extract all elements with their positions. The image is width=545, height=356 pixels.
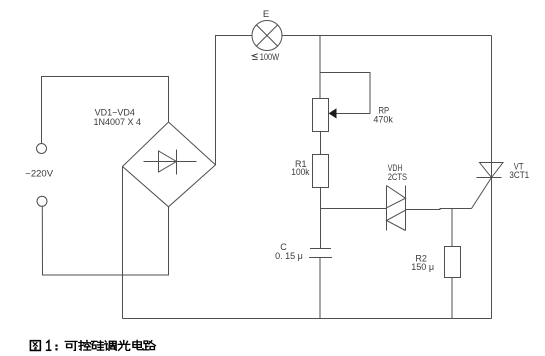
svg-text:150 μ: 150 μ xyxy=(411,262,434,272)
svg-text:E: E xyxy=(263,9,269,20)
wire RP to R1 xyxy=(320,132,322,155)
svg-text:~220V: ~220V xyxy=(25,168,53,179)
svg-text:0. 15 μ: 0. 15 μ xyxy=(275,251,303,261)
wire bridge plus up to lamp xyxy=(216,36,253,165)
RP wiper arrow xyxy=(330,109,337,117)
char 路 xyxy=(144,341,156,350)
thyristor VT xyxy=(472,163,504,209)
char 图 xyxy=(30,341,40,351)
capacitor C xyxy=(309,249,332,258)
diode inside bridge xyxy=(144,150,197,175)
svg-text:100k: 100k xyxy=(291,167,310,177)
svg-text:470k: 470k xyxy=(373,115,393,125)
svg-text:2CTS: 2CTS xyxy=(388,171,408,182)
svg-text:3CT1: 3CT1 xyxy=(509,170,529,181)
char 光 xyxy=(118,340,130,350)
wire gate to diac xyxy=(406,209,472,210)
svg-text:1N4007 X 4: 1N4007 X 4 xyxy=(94,117,142,127)
caption figure title: 图1：可控硅调光电路 xyxy=(30,340,155,350)
wire bridge minus to bottom rail xyxy=(122,167,124,319)
wire bottom AC path xyxy=(42,206,168,275)
char 硅 xyxy=(92,341,104,350)
wire R1 down to capacitor xyxy=(320,188,322,249)
char ： xyxy=(55,345,57,351)
wire right branch vertical xyxy=(491,36,493,319)
char 调 xyxy=(105,341,116,350)
char 控 xyxy=(79,340,91,350)
char 电 xyxy=(133,340,143,349)
terminal upper ~220V xyxy=(37,144,47,154)
wire R2 to bottom rail xyxy=(451,278,453,319)
wire R2 branch down xyxy=(451,209,453,247)
potentiometer RP body xyxy=(313,99,329,132)
resistor R2 xyxy=(445,247,461,278)
wire middle branch top xyxy=(319,36,321,99)
label ≤100W xyxy=(252,54,258,60)
wire node to diac xyxy=(321,208,387,210)
wire lamp to right branch xyxy=(282,35,492,37)
terminal lower ~220V xyxy=(37,196,47,206)
svg-text:100W: 100W xyxy=(260,52,280,62)
resistor R1 xyxy=(313,155,329,188)
wire RP rheostat loop xyxy=(320,73,370,114)
char 可 xyxy=(65,341,77,350)
wire capacitor to bottom rail xyxy=(319,258,321,319)
wire top-left AC loop xyxy=(42,77,169,144)
char 1 xyxy=(47,341,51,351)
wire bottom rail xyxy=(123,318,492,320)
lamp E xyxy=(252,21,282,51)
bridge rectifier VD1~VD4 xyxy=(123,122,216,207)
diac VDH xyxy=(387,186,406,231)
